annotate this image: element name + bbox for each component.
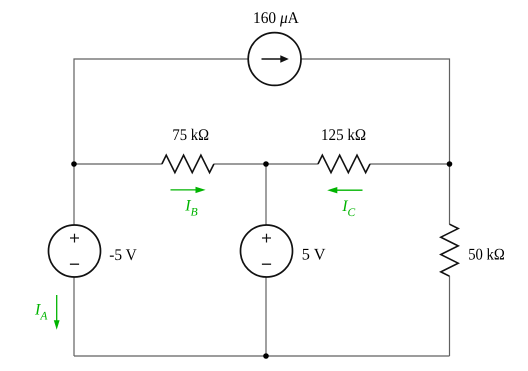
resistor R3 50k vertical zigzag [441, 224, 458, 276]
junction dot bottom node [263, 353, 269, 359]
current arrow I_A [56, 295, 58, 321]
svg-text:160 μA: 160 μA [253, 8, 299, 27]
svg-text:125 kΩ: 125 kΩ [321, 125, 366, 144]
voltage source V1 -5V circle [49, 225, 101, 277]
V1 minus sign [70, 263, 79, 265]
wire right: node C down to 50k resistor [449, 164, 451, 224]
wire right-bottom: 50k resistor to bottom rail [449, 276, 451, 356]
wire middle vertical: node B down to 5V source top [265, 164, 267, 225]
svg-text:5 V: 5 V [302, 245, 326, 264]
voltage source V2 5V circle [241, 225, 293, 277]
wire middle horizontal right segment [370, 163, 450, 165]
V1 plus sign [70, 237, 79, 239]
wire left-bottom: -5V source bottom to bottom rail [73, 277, 75, 356]
wire middle vertical bottom: 5V source bottom to bottom rail [265, 277, 267, 356]
junction dot node C [447, 161, 453, 167]
wire left: node A down to -5V source top [73, 164, 75, 225]
wire middle horizontal center segment [214, 163, 318, 165]
junction dot node A [71, 161, 77, 167]
current source I1 arrow [262, 58, 282, 60]
resistor R1 75k zigzag [162, 155, 214, 172]
wire bottom rail [74, 355, 450, 357]
current source I1 circle [248, 33, 301, 86]
junction dot node B [263, 161, 269, 167]
V2 plus sign [262, 237, 271, 239]
current arrow I_B [171, 189, 197, 191]
resistor R2 125k zigzag [318, 155, 370, 172]
current arrow I_C [337, 189, 363, 191]
wire top-right: current source to top-right corner [301, 59, 450, 164]
wire middle horizontal left segment [74, 163, 162, 165]
svg-text:75 kΩ: 75 kΩ [172, 125, 209, 144]
V2 minus sign [262, 263, 271, 265]
svg-text:50 kΩ: 50 kΩ [468, 245, 505, 264]
wire top-left: top-left corner to current source [74, 59, 248, 164]
svg-text:-5 V: -5 V [109, 245, 137, 264]
